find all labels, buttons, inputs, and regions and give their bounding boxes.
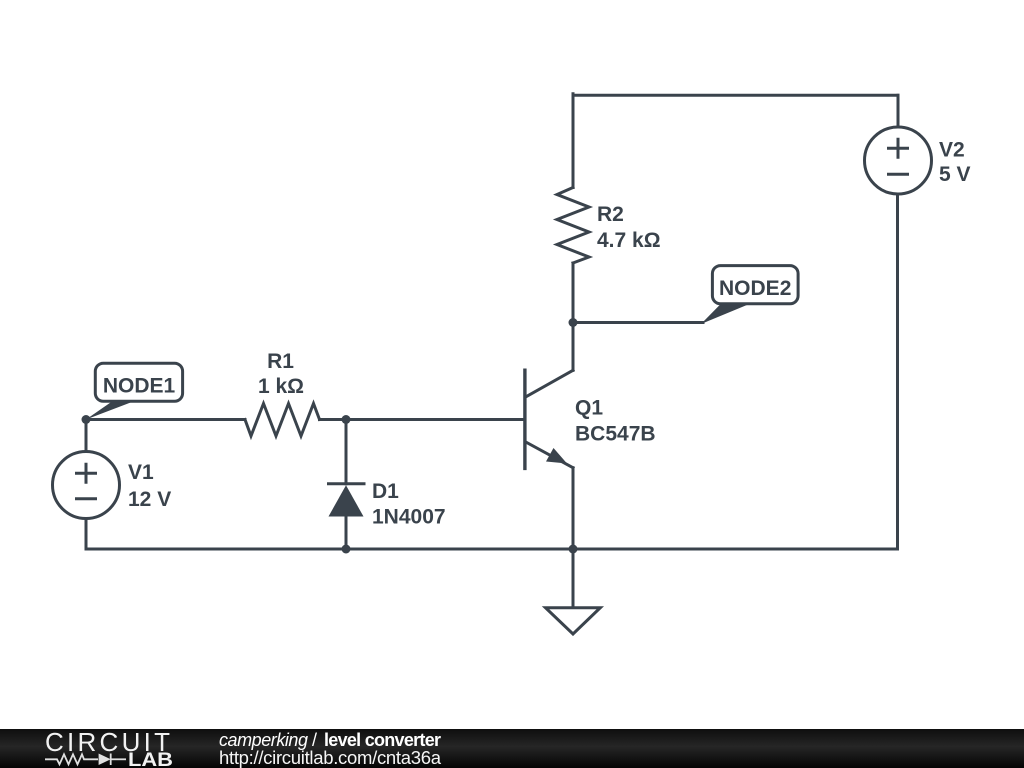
node flag NODE1: [86, 363, 183, 419]
label R1 value: [258, 350, 304, 398]
svg-text:R2: R2: [597, 203, 624, 226]
node junction dot R1/D1: [342, 415, 351, 424]
resistor R1: [245, 404, 320, 437]
svg-text:4.7 kΩ: 4.7 kΩ: [597, 229, 661, 252]
wire ground stub: [572, 549, 575, 608]
ground: [546, 608, 601, 634]
wire right vertical V2 bottom: [896, 194, 899, 549]
wire D1 bottom stub: [345, 517, 348, 550]
svg-text:1N4007: 1N4007: [372, 506, 446, 529]
svg-text:BC547B: BC547B: [575, 423, 656, 446]
svg-text:5 V: 5 V: [939, 163, 971, 186]
diode D1: [327, 484, 366, 517]
wire V1 bottom stub: [85, 519, 88, 550]
wire R1 to junction: [320, 418, 347, 421]
svg-text:V2: V2: [939, 139, 965, 162]
wire base from R1/D1 junction to Q1: [346, 418, 525, 421]
transistor Q1 collector diagonal: [526, 370, 573, 396]
svg-text:D1: D1: [372, 480, 399, 503]
wire collector vertical: [572, 323, 575, 371]
svg-text:R1: R1: [267, 350, 294, 373]
wire V2 top stub: [897, 95, 900, 127]
wire emitter vertical: [572, 468, 575, 549]
voltage source V2: [865, 127, 932, 194]
label Q1 value: [575, 397, 656, 446]
wire NODE2 branch: [573, 321, 703, 324]
svg-text:1 kΩ: 1 kΩ: [258, 375, 304, 398]
resistor R2: [557, 188, 589, 264]
node junction dot D1 bottom: [342, 545, 351, 554]
svg-text:http://circuitlab.com/cnta36a: http://circuitlab.com/cnta36a: [219, 747, 442, 768]
label R2 value: [597, 203, 661, 252]
wire top rail from R2 top to V2 top: [573, 94, 898, 97]
footer bar: [0, 729, 1024, 768]
node junction dot ground: [569, 545, 578, 554]
svg-text:Q1: Q1: [575, 397, 603, 420]
wire NODE1 to R1: [86, 418, 245, 421]
svg-text:NODE1: NODE1: [103, 374, 176, 397]
node junction dot NODE2: [569, 318, 578, 327]
label V1 value: [128, 461, 171, 511]
label V2 value: [939, 139, 971, 187]
transistor Q1 emitter arrow: [546, 448, 567, 464]
svg-text:LAB: LAB: [128, 750, 173, 768]
footer logo resistor-diode symbol: [45, 754, 126, 766]
wire R2 bottom to NODE2 junction: [572, 263, 575, 323]
node junction dot NODE1: [82, 415, 91, 424]
label D1 value: [372, 480, 446, 529]
wire bottom rail: [86, 548, 898, 551]
svg-text:V1: V1: [128, 461, 154, 484]
node flag NODE2: [701, 266, 798, 324]
voltage source V1: [53, 452, 120, 519]
svg-text:12 V: 12 V: [128, 488, 171, 511]
svg-text:NODE2: NODE2: [719, 277, 791, 300]
transistor Q1 base bar: [523, 370, 526, 468]
transistor Q1 emitter diagonal: [526, 442, 573, 467]
wire left vertical into R2: [572, 94, 575, 188]
footer CircuitLab logo wordmark: [45, 727, 173, 768]
wire D1 top stub: [345, 420, 348, 484]
wire V1 top stub: [85, 420, 88, 452]
